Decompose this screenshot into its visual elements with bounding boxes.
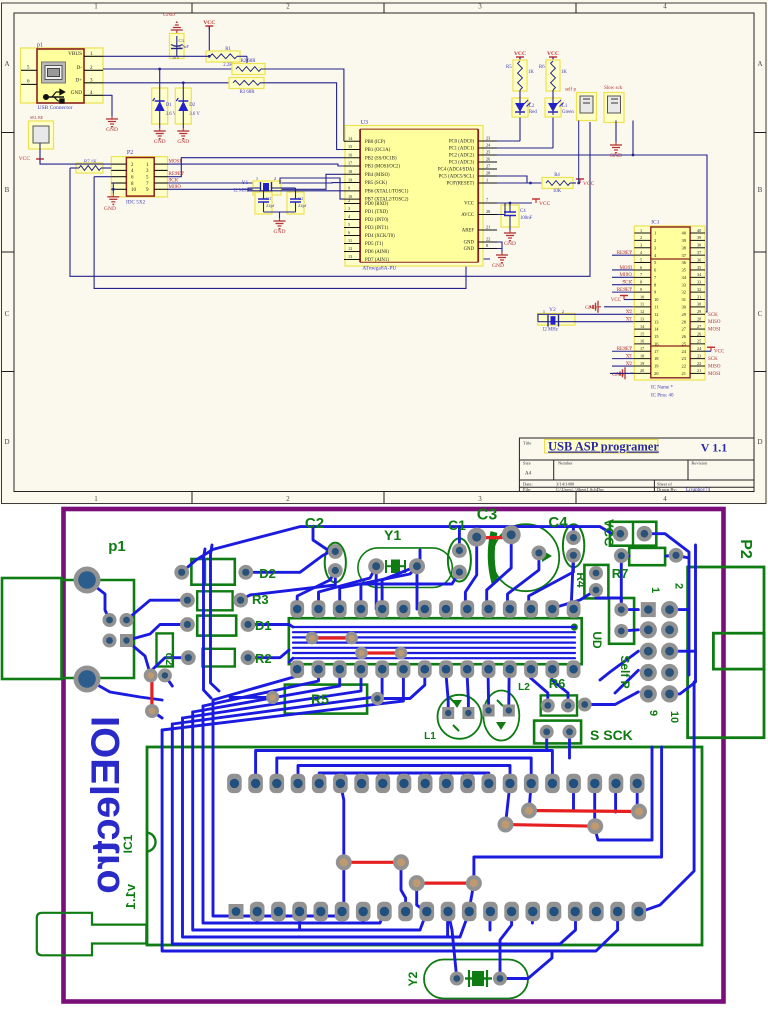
svg-text:11: 11 <box>640 302 644 307</box>
svg-text:C4: C4 <box>548 514 568 531</box>
svg-text:PC2 (ADC2): PC2 (ADC2) <box>449 154 475 159</box>
svg-text:25: 25 <box>697 339 701 344</box>
svg-text:GND: GND <box>163 12 175 18</box>
svg-text:UD: UD <box>590 631 604 649</box>
svg-text:VCC: VCC <box>611 298 622 303</box>
svg-text:Red: Red <box>529 110 537 115</box>
svg-text:IC1: IC1 <box>651 220 660 226</box>
svg-text:GND: GND <box>106 127 118 133</box>
svg-text:L1: L1 <box>424 731 436 742</box>
svg-text:B: B <box>5 186 10 194</box>
svg-text:4.7nF: 4.7nF <box>179 44 190 49</box>
svg-text:30: 30 <box>682 305 687 310</box>
svg-text:GND: GND <box>610 153 622 159</box>
svg-text:26: 26 <box>682 334 687 339</box>
svg-text:6: 6 <box>348 230 350 235</box>
svg-text:U3: U3 <box>361 120 368 126</box>
svg-text:3: 3 <box>478 3 482 11</box>
svg-text:1: 1 <box>256 176 258 181</box>
svg-text:22: 22 <box>697 361 701 366</box>
svg-text:8: 8 <box>486 243 488 248</box>
svg-text:GND: GND <box>71 90 82 96</box>
svg-text:100nF: 100nF <box>520 216 533 221</box>
svg-text:39: 39 <box>682 238 687 243</box>
svg-text:Drawn By:: Drawn By: <box>657 487 677 492</box>
svg-text:MISO: MISO <box>708 365 721 370</box>
svg-text:C2: C2 <box>298 196 303 201</box>
svg-text:9: 9 <box>647 710 659 716</box>
svg-text:27: 27 <box>697 324 701 329</box>
svg-text:9: 9 <box>348 186 350 191</box>
svg-text:B: B <box>758 186 763 194</box>
svg-text:PB4 (MISO): PB4 (MISO) <box>365 173 390 178</box>
svg-text:19: 19 <box>640 361 644 366</box>
svg-text:10: 10 <box>668 711 680 723</box>
svg-text:21: 21 <box>486 225 490 230</box>
svg-text:4: 4 <box>663 3 667 11</box>
svg-text:37: 37 <box>697 250 701 255</box>
svg-text:23: 23 <box>486 136 490 141</box>
svg-text:34: 34 <box>682 275 687 280</box>
svg-text:25: 25 <box>486 150 490 155</box>
svg-text:GND: GND <box>504 241 516 247</box>
svg-text:Y2: Y2 <box>549 307 556 313</box>
svg-text:R4: R4 <box>554 173 560 178</box>
svg-text:22pf: 22pf <box>298 203 307 208</box>
svg-text:2: 2 <box>348 198 350 203</box>
svg-text:16: 16 <box>640 339 644 344</box>
svg-text:12: 12 <box>348 246 352 251</box>
svg-text:26: 26 <box>486 157 490 162</box>
svg-text:GND: GND <box>154 139 166 145</box>
svg-text:C1: C1 <box>266 196 271 201</box>
svg-text:Size: Size <box>523 461 531 466</box>
svg-text:Revision: Revision <box>691 461 708 466</box>
svg-text:VCC: VCC <box>602 519 617 547</box>
svg-text:28: 28 <box>697 316 701 321</box>
svg-text:PD5 (T1): PD5 (T1) <box>365 242 384 247</box>
svg-text:X2: X2 <box>626 310 633 315</box>
svg-text:12: 12 <box>654 312 659 317</box>
svg-text:16: 16 <box>348 152 352 157</box>
svg-text:1: 1 <box>640 228 642 233</box>
svg-text:C4: C4 <box>520 209 526 214</box>
svg-text:29: 29 <box>697 309 701 314</box>
svg-text:20: 20 <box>654 371 659 376</box>
svg-text:8: 8 <box>640 280 642 285</box>
svg-text:VCC: VCC <box>583 181 595 187</box>
svg-text:PB6 (XTAL1/TOSC1): PB6 (XTAL1/TOSC1) <box>365 189 409 194</box>
svg-text:16: 16 <box>654 341 659 346</box>
svg-text:40: 40 <box>682 231 687 236</box>
svg-text:35: 35 <box>697 265 701 270</box>
svg-text:GND: GND <box>104 206 116 212</box>
svg-text:19: 19 <box>654 364 659 369</box>
svg-text:R4: R4 <box>574 572 588 588</box>
svg-text:P2: P2 <box>737 539 754 559</box>
svg-text:PD1 (TXD): PD1 (TXD) <box>365 210 388 215</box>
svg-text:27: 27 <box>486 164 490 169</box>
svg-text:18: 18 <box>654 356 659 361</box>
svg-text:L1: L1 <box>562 104 568 109</box>
svg-text:15: 15 <box>348 144 352 149</box>
svg-text:VCC: VCC <box>714 350 725 355</box>
svg-text:PD4 (XCK/T0): PD4 (XCK/T0) <box>365 234 395 239</box>
svg-text:3: 3 <box>478 495 482 503</box>
svg-text:2: 2 <box>286 3 290 11</box>
svg-text:11: 11 <box>348 238 352 243</box>
svg-text:File:: File: <box>523 487 531 492</box>
svg-text:D-: D- <box>77 65 83 71</box>
svg-text:D1: D1 <box>166 103 172 108</box>
svg-text:Green: Green <box>562 110 574 115</box>
svg-text:22: 22 <box>682 364 687 369</box>
svg-text:1: 1 <box>649 587 661 593</box>
svg-text:5: 5 <box>348 222 350 227</box>
svg-text:R2 68R: R2 68R <box>241 59 257 64</box>
svg-text:PC4 (ADC4/SDA): PC4 (ADC4/SDA) <box>438 168 475 173</box>
svg-text:PD6 (AIN0): PD6 (AIN0) <box>365 250 389 255</box>
svg-text:Y2: Y2 <box>406 971 420 986</box>
svg-text:VCC: VCC <box>203 20 215 26</box>
svg-text:Date:: Date: <box>523 481 533 486</box>
svg-text:2: 2 <box>640 235 642 240</box>
svg-text:D: D <box>757 438 762 446</box>
svg-text:15: 15 <box>640 331 644 336</box>
svg-text:1: 1 <box>94 3 98 11</box>
svg-text:Y1: Y1 <box>242 180 249 186</box>
svg-text:2: 2 <box>673 583 685 589</box>
svg-text:R3 68R: R3 68R <box>240 90 256 95</box>
svg-text:22: 22 <box>486 237 490 242</box>
svg-text:IOElectro: IOElectro <box>84 716 128 894</box>
svg-text:22pf: 22pf <box>266 203 275 208</box>
svg-text:32: 32 <box>682 290 687 295</box>
svg-text:18: 18 <box>348 169 352 174</box>
svg-text:R2: R2 <box>255 651 272 666</box>
svg-text:SCK: SCK <box>708 313 718 318</box>
svg-text:R7: R7 <box>612 566 629 581</box>
svg-text:10: 10 <box>654 297 659 302</box>
svg-text:P2: P2 <box>127 150 133 156</box>
svg-text:39: 39 <box>697 235 701 240</box>
svg-text:PC3 (ADC3): PC3 (ADC3) <box>449 161 475 166</box>
svg-text:D+: D+ <box>75 78 82 84</box>
svg-text:C3: C3 <box>477 507 498 524</box>
svg-text:GND: GND <box>274 229 286 235</box>
svg-text:VCC: VCC <box>547 51 559 57</box>
svg-text:self p: self p <box>565 88 576 93</box>
svg-text:C: C <box>758 310 763 318</box>
svg-text:SEL BE: SEL BE <box>30 115 44 120</box>
svg-text:21: 21 <box>697 368 701 373</box>
svg-text:GND: GND <box>464 241 475 246</box>
svg-text:Sheet of: Sheet of <box>657 481 672 486</box>
svg-text:X1: X1 <box>626 317 633 322</box>
svg-text:GND: GND <box>177 139 189 145</box>
svg-text:R3: R3 <box>252 592 269 607</box>
svg-text:1: 1 <box>94 495 98 503</box>
svg-text:35: 35 <box>682 268 687 273</box>
svg-text:PC6 (RESET): PC6 (RESET) <box>447 182 475 187</box>
svg-text:V 1.1: V 1.1 <box>701 441 727 455</box>
svg-text:A4: A4 <box>525 472 532 477</box>
svg-text:PB1 (OC1A): PB1 (OC1A) <box>365 148 391 153</box>
svg-text:USB ASP programer: USB ASP programer <box>548 440 659 454</box>
svg-text:4: 4 <box>663 495 667 503</box>
svg-text:3: 3 <box>640 243 642 248</box>
svg-text:15: 15 <box>654 334 659 339</box>
svg-text:12 MHz: 12 MHz <box>233 189 249 194</box>
svg-text:PB5 (SCK): PB5 (SCK) <box>365 181 387 186</box>
svg-text:A: A <box>757 60 762 68</box>
svg-text:11: 11 <box>654 305 658 310</box>
svg-text:17: 17 <box>640 346 644 351</box>
svg-text:p1: p1 <box>37 43 43 49</box>
svg-text:24: 24 <box>682 349 687 354</box>
svg-text:6: 6 <box>640 265 642 270</box>
svg-text:IDC 5X2: IDC 5X2 <box>126 200 146 206</box>
svg-text:1K: 1K <box>528 70 534 75</box>
svg-text:7: 7 <box>640 272 642 277</box>
svg-text:S SCK: S SCK <box>590 727 633 743</box>
svg-text:D2: D2 <box>189 103 195 108</box>
svg-text:3/14/1400: 3/14/1400 <box>556 481 575 486</box>
svg-text:36: 36 <box>697 257 701 262</box>
svg-text:2: 2 <box>654 238 656 243</box>
svg-text:VCC: VCC <box>539 201 551 207</box>
svg-text:PD2 (INT0): PD2 (INT0) <box>365 218 389 223</box>
svg-text:40: 40 <box>697 228 701 233</box>
svg-text:3: 3 <box>348 206 350 211</box>
svg-text:18: 18 <box>640 353 644 358</box>
svg-text:C3: C3 <box>179 38 185 43</box>
svg-text:A: A <box>4 60 9 68</box>
svg-text:IC Pins: 40: IC Pins: 40 <box>651 394 674 399</box>
svg-text:C:\Users\..\Sheet1.SchDoc: C:\Users\..\Sheet1.SchDoc <box>556 487 604 492</box>
svg-text:R5: R5 <box>506 65 512 70</box>
svg-text:GND: GND <box>464 247 475 252</box>
svg-text:27: 27 <box>682 327 687 332</box>
svg-text:28: 28 <box>682 319 687 324</box>
svg-text:25: 25 <box>682 341 687 346</box>
svg-text:17: 17 <box>348 161 352 166</box>
svg-text:GND: GND <box>585 305 597 311</box>
svg-text:38: 38 <box>682 245 687 250</box>
svg-text:PD0 (RXD): PD0 (RXD) <box>365 202 388 207</box>
svg-text:12: 12 <box>640 309 644 314</box>
svg-text:IC Name *: IC Name * <box>651 386 673 391</box>
svg-text:VCC: VCC <box>514 51 526 57</box>
svg-text:VBUS: VBUS <box>68 51 82 57</box>
svg-text:10: 10 <box>640 294 644 299</box>
svg-text:PC1 (ADC1): PC1 (ADC1) <box>449 147 475 152</box>
svg-text:10: 10 <box>131 188 137 193</box>
svg-text:L2: L2 <box>518 682 530 693</box>
svg-text:31: 31 <box>682 297 687 302</box>
svg-text:Liyanboy74: Liyanboy74 <box>686 488 711 493</box>
svg-text:Y1: Y1 <box>384 527 401 543</box>
svg-text:14: 14 <box>654 327 659 332</box>
svg-text:20: 20 <box>640 368 644 373</box>
svg-text:AREF: AREF <box>462 229 475 234</box>
svg-text:26: 26 <box>697 331 701 336</box>
svg-text:VCC: VCC <box>464 202 474 207</box>
svg-text:29: 29 <box>682 312 687 317</box>
svg-text:1K: 1K <box>561 70 567 75</box>
svg-text:PB3 (MOSI/OC2): PB3 (MOSI/OC2) <box>365 165 400 170</box>
svg-text:C2: C2 <box>305 515 324 532</box>
svg-text:2: 2 <box>286 495 290 503</box>
svg-text:31: 31 <box>697 294 701 299</box>
svg-text:21: 21 <box>682 371 687 376</box>
svg-text:USB Connector: USB Connector <box>38 105 73 111</box>
svg-text:10K: 10K <box>553 189 562 194</box>
svg-text:36: 36 <box>682 260 687 265</box>
svg-text:1: 1 <box>654 231 656 236</box>
svg-text:13: 13 <box>348 254 352 259</box>
svg-text:ATmega8A-PU: ATmega8A-PU <box>362 266 396 272</box>
svg-text:28: 28 <box>486 171 490 176</box>
svg-text:12 MHz: 12 MHz <box>542 328 558 333</box>
svg-text:20: 20 <box>486 209 490 214</box>
svg-text:C1: C1 <box>448 517 466 533</box>
svg-text:PD7 (AIN1): PD7 (AIN1) <box>365 258 389 263</box>
svg-text:R6: R6 <box>549 676 566 691</box>
svg-text:D: D <box>4 438 9 446</box>
svg-text:32: 32 <box>697 287 701 292</box>
svg-text:Self P: Self P <box>618 655 632 688</box>
svg-text:PC0 (ADC0): PC0 (ADC0) <box>449 140 475 145</box>
svg-text:17: 17 <box>654 349 659 354</box>
svg-text:PD3 (INT1): PD3 (INT1) <box>365 226 389 231</box>
svg-text:1: 1 <box>486 178 488 183</box>
svg-text:SCK: SCK <box>708 357 718 362</box>
svg-text:38: 38 <box>697 243 701 248</box>
svg-text:VCC: VCC <box>19 156 31 162</box>
svg-text:MOSI: MOSI <box>708 328 721 333</box>
svg-text:23: 23 <box>682 356 687 361</box>
svg-text:5: 5 <box>640 257 642 262</box>
svg-text:9: 9 <box>640 287 642 292</box>
svg-text:2: 2 <box>562 310 564 314</box>
svg-text:PB2 (SS/OC1B): PB2 (SS/OC1B) <box>365 156 397 161</box>
svg-text:Slow sck: Slow sck <box>604 86 623 91</box>
svg-text:2: 2 <box>274 176 276 181</box>
svg-text:D2: D2 <box>259 566 276 581</box>
svg-text:PB0 (ICP): PB0 (ICP) <box>365 140 386 145</box>
svg-text:R6: R6 <box>539 65 545 70</box>
svg-text:MISO: MISO <box>708 320 721 325</box>
svg-text:AVCC: AVCC <box>461 213 474 218</box>
svg-text:Number: Number <box>558 461 573 466</box>
svg-text:C: C <box>5 310 10 318</box>
svg-text:23: 23 <box>697 353 701 358</box>
svg-text:13: 13 <box>654 319 659 324</box>
svg-text:GND: GND <box>492 263 504 269</box>
svg-text:D1: D1 <box>255 618 272 633</box>
svg-text:33: 33 <box>697 280 701 285</box>
svg-text:MOSI: MOSI <box>708 372 721 377</box>
svg-text:p1: p1 <box>108 538 126 555</box>
svg-text:PC5 (ADC5/SCL): PC5 (ADC5/SCL) <box>439 175 475 180</box>
svg-text:30: 30 <box>697 302 701 307</box>
svg-text:Title: Title <box>523 441 531 446</box>
svg-text:13: 13 <box>640 316 644 321</box>
svg-text:7: 7 <box>486 198 488 203</box>
svg-text:R5: R5 <box>311 691 329 707</box>
svg-text:19: 19 <box>348 177 352 182</box>
svg-text:3.6 V: 3.6 V <box>189 112 200 117</box>
svg-text:33: 33 <box>682 282 687 287</box>
svg-text:d2: d2 <box>163 653 175 666</box>
svg-text:1: 1 <box>543 310 545 314</box>
svg-text:L2: L2 <box>529 104 535 109</box>
svg-text:R1: R1 <box>225 47 231 52</box>
svg-text:37: 37 <box>682 253 687 258</box>
